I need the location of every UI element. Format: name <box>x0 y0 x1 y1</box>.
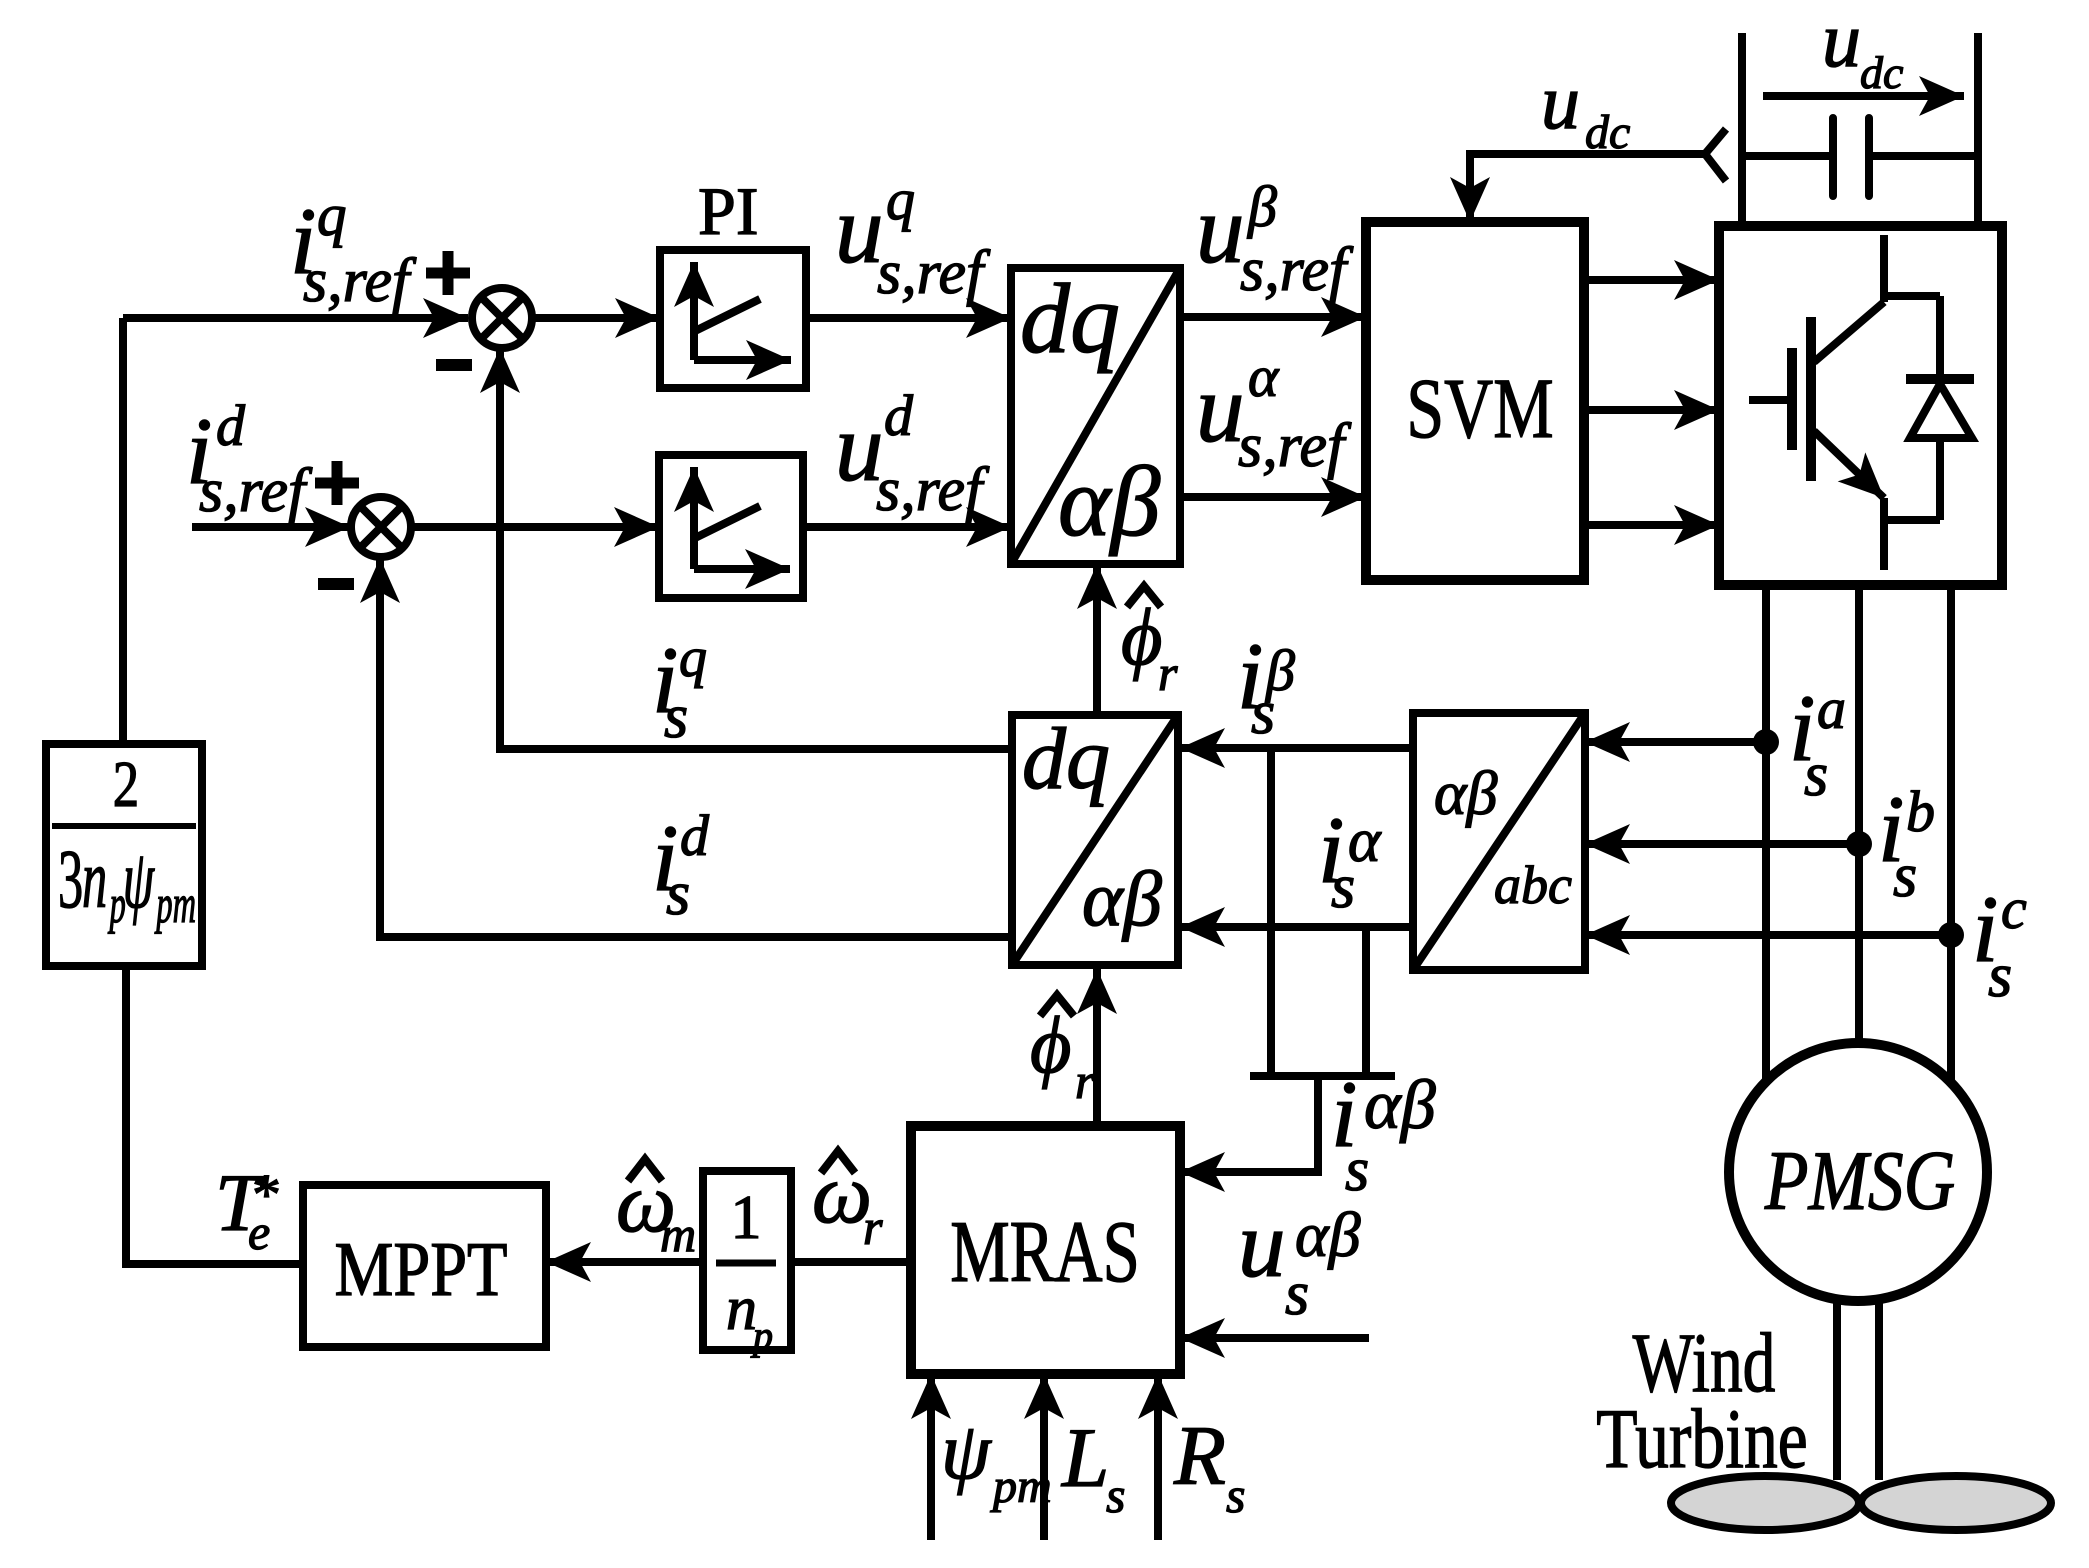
wire SVM gate signals to converter <box>1584 276 1719 284</box>
svg-text:r: r <box>1158 645 1178 701</box>
svg-text:p: p <box>750 1313 773 1358</box>
svg-text:r: r <box>863 1199 883 1255</box>
svg-text:PMSG: PMSG <box>1764 1133 1955 1227</box>
svg-text:s: s <box>1988 942 2012 1010</box>
svg-text:dq: dq <box>1022 711 1110 808</box>
converter block (machine-side inverter) <box>1719 226 2002 585</box>
svg-text:R: R <box>1173 1409 1226 1503</box>
svg-text:pm: pm <box>154 873 196 934</box>
turbine blade left <box>1671 1476 1859 1530</box>
capacitor C dc <box>1742 152 1978 160</box>
svg-text:u: u <box>1196 176 1245 283</box>
svg-text:s: s <box>1331 853 1355 921</box>
svg-text:d: d <box>216 393 246 458</box>
svg-text:dc: dc <box>1585 106 1630 159</box>
svg-text:s: s <box>1251 679 1275 747</box>
svg-text:3: 3 <box>58 832 83 925</box>
svg-text:a: a <box>1817 676 1846 741</box>
wire i q s feedback from dq2 to junction 1 <box>500 348 1011 749</box>
phase line a from converter to PMSG <box>1762 585 1770 1083</box>
block MRAS estimator <box>911 1126 1180 1374</box>
diode D1 <box>1936 296 1944 520</box>
svg-text:s: s <box>1285 1260 1309 1328</box>
svg-text:q: q <box>317 182 347 248</box>
wire dq1 to SVM (u beta s,ref) <box>1180 313 1366 321</box>
wire d-axis reference into summing junction 2 <box>192 523 350 531</box>
svg-text:PI: PI <box>698 173 758 249</box>
wire flux angle from MRAS up into dq2 <box>1093 969 1101 1126</box>
svg-text:SVM: SVM <box>1406 360 1553 455</box>
svg-text:L: L <box>1061 1411 1109 1505</box>
IGBT top connection to diode <box>1884 292 1940 300</box>
svg-text:s,ref: s,ref <box>199 457 313 525</box>
svg-text:s: s <box>666 860 690 928</box>
svg-text:abc: abc <box>1494 855 1572 915</box>
svg-text:dc: dc <box>1860 47 1903 98</box>
arrow u_dc across DC link <box>1763 92 1964 100</box>
PI block 2 <box>659 455 803 598</box>
DC link rail right <box>1974 33 1982 226</box>
gain block 2/(3 np psi_pm) <box>46 744 202 966</box>
block MPPT <box>303 1185 546 1347</box>
summing junction S2 <box>351 497 411 557</box>
minus sign at junction 1 <box>436 359 472 371</box>
IGBT emitter lead <box>1880 498 1888 570</box>
label Wind Turbine <box>1633 1316 1776 1410</box>
summing junction S1 <box>472 288 532 348</box>
node c <box>1938 922 1964 948</box>
svg-text:s,ref: s,ref <box>1240 236 1354 304</box>
svg-text:α: α <box>1248 344 1280 409</box>
measurement bus bar <box>1250 1072 1395 1080</box>
svg-text:q: q <box>679 627 707 689</box>
wire omega_r hat from MRAS to 1/np <box>791 1258 911 1266</box>
IGBT body bar <box>1806 317 1816 481</box>
svg-text:pm: pm <box>990 1460 1052 1513</box>
wire PI2 output to dq1 (u d s,ref) <box>803 523 1011 531</box>
svg-text:dq: dq <box>1020 263 1120 374</box>
wire u alphabeta s into MRAS <box>1180 1334 1369 1342</box>
transform block dq/alphabeta U2 <box>1012 715 1178 965</box>
svg-text:s: s <box>1106 1467 1125 1523</box>
wire i alphabeta s into MRAS <box>1180 1076 1318 1172</box>
IGBT bottom connection to diode <box>1884 516 1940 524</box>
wire from gain block bottom down and right to MPPT (Te* signal) <box>126 966 303 1264</box>
wire flux angle from dq2 up into dq1 <box>1093 564 1101 713</box>
svg-text:b: b <box>1906 779 1935 844</box>
stub from alpha line down to measurement bus <box>1362 927 1370 1076</box>
node a <box>1753 729 1779 755</box>
block SVM <box>1366 222 1584 580</box>
wire current tap c <box>1585 931 1951 939</box>
svg-text:s: s <box>1226 1467 1245 1523</box>
svg-text:d: d <box>884 383 914 448</box>
svg-text:αβ: αβ <box>1364 1067 1436 1144</box>
svg-text:d: d <box>680 803 710 868</box>
wire i d s feedback from dq2 to junction 2 <box>380 558 1011 937</box>
svg-text:αβ: αβ <box>1058 446 1160 557</box>
wire psi_pm parameter into MRAS <box>927 1374 935 1540</box>
phase line b <box>1855 585 1863 1041</box>
wire u_dc measurement feedback into SVM <box>1470 154 1705 222</box>
svg-text:s: s <box>1804 741 1828 809</box>
wire R_s parameter into MRAS <box>1154 1374 1162 1540</box>
IGBT gate bar <box>1787 348 1797 450</box>
wire L_s parameter into MRAS <box>1040 1374 1048 1540</box>
svg-text:s,ref: s,ref <box>877 239 991 307</box>
svg-text:αβ: αβ <box>1434 760 1498 828</box>
svg-text:u: u <box>1238 1191 1286 1297</box>
svg-text:c: c <box>2001 876 2027 941</box>
IGBT emitter slant with arrow <box>1814 431 1884 498</box>
svg-text:MRAS: MRAS <box>950 1202 1140 1300</box>
wire dq1 to SVM (u alpha s,ref) <box>1180 493 1366 501</box>
svg-text:u: u <box>1541 58 1580 145</box>
turbine blade right <box>1861 1476 2051 1530</box>
transform block alphabeta/abc U3 <box>1413 713 1585 970</box>
PI block 1 <box>660 250 806 388</box>
node b <box>1846 831 1872 857</box>
wire i alpha s from abc block to dq2 <box>1180 923 1413 931</box>
svg-text:ψ: ψ <box>941 1408 992 1496</box>
plus sign at junction 1 <box>426 251 470 295</box>
plus sign at junction 2 <box>315 461 359 505</box>
svg-text:2: 2 <box>113 747 139 820</box>
shaft <box>1837 1301 1879 1480</box>
phase line c <box>1947 585 1955 1082</box>
svg-text:ψ: ψ <box>123 832 155 925</box>
svg-text:s: s <box>664 683 688 751</box>
IGBT gate lead <box>1749 396 1792 404</box>
svg-text:s,ref: s,ref <box>876 456 990 524</box>
svg-text:MPPT: MPPT <box>335 1226 508 1312</box>
svg-text:u: u <box>1822 0 1861 83</box>
svg-text:q: q <box>886 167 915 232</box>
wire left feedback rail from q-ref line down to torque gain block <box>119 318 127 744</box>
svg-text:β: β <box>1247 174 1277 239</box>
wire current tap b <box>1585 840 1859 848</box>
wire current tap a to alphabeta/abc <box>1585 738 1766 746</box>
wire q-axis reference into summing junction 1 <box>123 314 468 322</box>
svg-text:s,ref: s,ref <box>1238 412 1352 480</box>
wire junction 1 to PI block 1 <box>532 314 660 322</box>
stub from beta line down to measurement bus <box>1267 748 1275 1076</box>
svg-text:s,ref: s,ref <box>303 247 417 315</box>
svg-text:n: n <box>82 832 107 925</box>
wire omega_m hat from 1/np to MPPT <box>546 1258 703 1266</box>
open tap arrowhead at DC rail <box>1705 129 1726 181</box>
svg-text:e: e <box>248 1204 270 1260</box>
svg-text:m: m <box>660 1206 696 1262</box>
svg-text:s: s <box>1893 842 1917 910</box>
transform block dq/alphabeta U1 <box>1011 268 1180 564</box>
IGBT Q1 collector lead <box>1880 235 1888 302</box>
svg-text:ϕ: ϕ <box>1030 1002 1071 1090</box>
gain block 1/np <box>703 1171 791 1350</box>
svg-text:s: s <box>1345 1136 1369 1204</box>
DC link rail left <box>1738 33 1746 226</box>
svg-text:r: r <box>1075 1053 1095 1109</box>
IGBT collector slant <box>1814 302 1884 362</box>
wire i beta s from abc block to dq2 <box>1180 744 1413 752</box>
generator PMSG <box>1729 1043 1987 1301</box>
svg-text:αβ: αβ <box>1082 855 1162 942</box>
minus sign at junction 2 <box>318 578 354 590</box>
svg-text:Turbine: Turbine <box>1596 1392 1807 1486</box>
wire junction 2 to PI block 2 <box>412 523 659 531</box>
wire PI1 output to dq1 (u q s,ref) <box>806 314 1011 322</box>
svg-text:1: 1 <box>731 1184 762 1252</box>
